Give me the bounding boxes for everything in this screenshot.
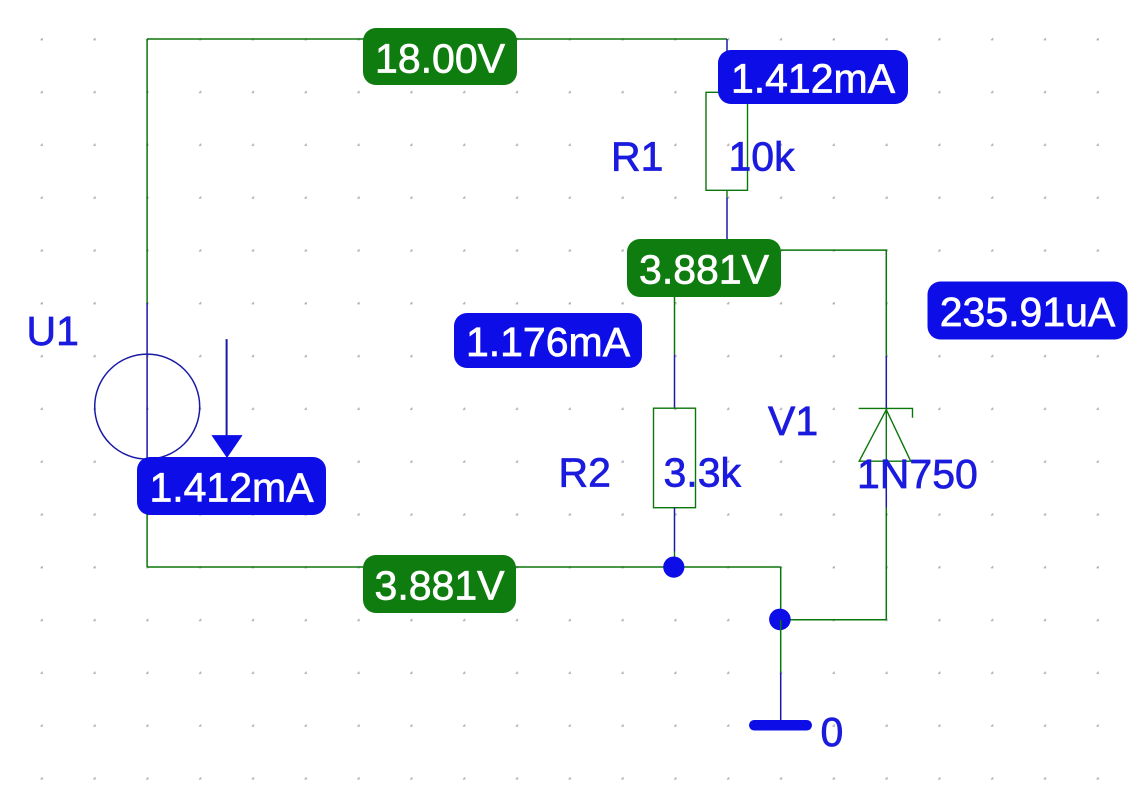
current source U1 top lead	[146, 303, 148, 355]
svg-text:1.412mA: 1.412mA	[149, 465, 314, 511]
probe badge 1.412mA bottom	[137, 457, 326, 515]
wire top horizontal from U1 to R1	[147, 38, 727, 40]
wire from mid badge bottom down to R2	[674, 297, 676, 355]
wire left vertical below U1 to bottom rail	[146, 509, 148, 567]
resistor R2 bottom lead	[674, 508, 676, 552]
zener V1 cathode bar with right tick	[859, 408, 913, 417]
resistor R2 body	[654, 408, 696, 508]
svg-text:3.3k: 3.3k	[664, 450, 742, 496]
current direction arrow stem	[226, 339, 228, 436]
wire from ground node down	[780, 620, 782, 673]
resistor R1 bottom stub	[726, 190, 728, 197]
ground lead	[780, 673, 782, 721]
current source U1 body circle	[95, 354, 200, 459]
svg-text:1.412mA: 1.412mA	[731, 56, 896, 102]
svg-text:R1: R1	[611, 133, 663, 179]
zener V1 center line through triangle	[885, 410, 887, 462]
wire bottom rail from left corner to node junction	[147, 566, 781, 568]
svg-text:18.00V: 18.00V	[375, 35, 506, 81]
svg-text:3.881V: 3.881V	[375, 563, 506, 609]
zener V1 top lead	[885, 356, 887, 409]
svg-text:1.176mA: 1.176mA	[466, 319, 631, 365]
junction node dot right	[769, 609, 791, 631]
current direction arrowhead	[211, 435, 242, 458]
wire zener bottom vertical up	[885, 508, 887, 620]
probe badge 235.91uA	[928, 282, 1128, 340]
probe badge 3.881V bottom	[363, 555, 516, 613]
svg-text:R2: R2	[559, 450, 611, 496]
svg-text:U1: U1	[27, 308, 79, 354]
svg-text:235.91uA: 235.91uA	[940, 289, 1116, 335]
resistor R1 top lead	[726, 39, 728, 92]
resistor R2 top lead	[674, 355, 676, 409]
wire from ground node right to zener bottom	[781, 619, 887, 621]
wire from mid badge right to zener top	[781, 250, 886, 356]
probe badge 3.881V middle	[627, 239, 781, 297]
resistor R2 bottom stub to rail	[674, 552, 676, 568]
probe badge 1.412mA top	[718, 50, 908, 104]
svg-text:0: 0	[821, 709, 844, 755]
zener V1 bottom lead	[885, 461, 887, 507]
svg-text:1N750: 1N750	[857, 451, 978, 497]
junction node dot left	[663, 557, 684, 578]
wire jog down from bottom rail to ground node	[780, 567, 782, 620]
ground symbol bar	[749, 720, 812, 731]
wire left vertical from top corner down to U1 source	[146, 39, 148, 303]
svg-text:10k: 10k	[729, 133, 796, 179]
resistor R1 bottom lead to probe	[726, 197, 728, 240]
zener V1 triangle	[859, 410, 911, 462]
probe badge 18.00V	[363, 28, 517, 85]
probe badge 1.176mA	[454, 313, 642, 368]
current source U1 internal lead line	[146, 355, 148, 458]
svg-text:3.881V: 3.881V	[639, 247, 770, 293]
resistor R1 body	[706, 92, 748, 190]
svg-text:V1: V1	[768, 398, 818, 444]
